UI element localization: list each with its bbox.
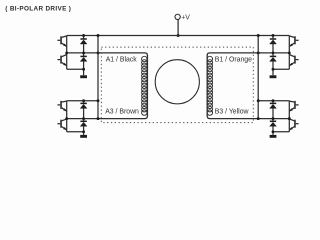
node B3 junction dots bbox=[257, 117, 291, 120]
transistor Q8 bbox=[289, 119, 298, 130]
ground G3 bbox=[270, 69, 277, 78]
wire +V to rail bbox=[177, 20, 179, 36]
stepper motor dashed outline bbox=[101, 47, 253, 123]
+V supply terminal bbox=[175, 14, 190, 21]
diode D1 bbox=[80, 36, 87, 53]
wire coil B spine bbox=[206, 55, 208, 116]
transistor Q5 bbox=[289, 36, 298, 47]
coil B (right winding) bbox=[207, 56, 212, 115]
wire Q3-Q4 vertical bbox=[66, 101, 68, 132]
svg-text:( BI-POLAR DRIVE ): ( BI-POLAR DRIVE ) bbox=[5, 5, 71, 12]
node A1 junction dots bbox=[65, 51, 99, 54]
wire lower-right +V line bbox=[258, 100, 289, 102]
diode D8 bbox=[270, 119, 277, 132]
wire lower-left ground line bbox=[67, 131, 85, 133]
wire B3 coil to node bbox=[207, 116, 289, 119]
wire Q7-Q8 vertical bbox=[288, 101, 290, 132]
wire left +V drop bbox=[97, 36, 99, 119]
wire coil A spine bbox=[146, 55, 148, 116]
diode D2 bbox=[80, 53, 87, 69]
diode D4 bbox=[80, 119, 87, 132]
wire Q1-Q2 collector-emitter vertical bbox=[66, 36, 68, 70]
node D4 ground junction bbox=[82, 130, 85, 133]
svg-text:+V: +V bbox=[181, 14, 190, 21]
ground G4 bbox=[270, 132, 277, 138]
node D7 top junction bbox=[257, 99, 275, 102]
node right drop rail junction bbox=[257, 34, 260, 37]
node D1 rail junction bbox=[82, 34, 85, 37]
node A3 junction dots bbox=[65, 117, 99, 120]
wire lower-left +V line bbox=[67, 100, 98, 102]
diode D6 bbox=[270, 53, 277, 69]
transistor Q4 bbox=[57, 119, 66, 130]
wire lower-right ground line bbox=[272, 131, 289, 133]
ground G2 bbox=[80, 132, 87, 138]
svg-text:B3 / Yellow: B3 / Yellow bbox=[215, 109, 249, 116]
transistor Q3 bbox=[57, 101, 66, 111]
node D2 ground junction bbox=[82, 68, 85, 71]
node +V rail junction bbox=[177, 34, 180, 37]
diode D5 bbox=[270, 36, 277, 53]
transistor Q6 bbox=[289, 55, 298, 66]
wire upper-left ground line bbox=[67, 68, 85, 70]
transistor Q1 bbox=[57, 36, 66, 47]
svg-text:B1 / Orange: B1 / Orange bbox=[215, 56, 252, 63]
svg-text:A1 / Black: A1 / Black bbox=[106, 56, 138, 63]
wire right +V drop bbox=[257, 36, 259, 119]
node D3 top junction bbox=[82, 99, 99, 102]
node D6 ground junction bbox=[272, 68, 275, 71]
node left drop rail junction bbox=[97, 34, 100, 37]
wire Q5-Q6 vertical bbox=[288, 36, 290, 70]
diode D3 bbox=[80, 101, 87, 119]
transistor Q7 bbox=[289, 101, 298, 111]
diode D7 bbox=[270, 101, 277, 119]
wire A3 node to coil A bbox=[67, 116, 148, 119]
wire +V rail bbox=[67, 35, 290, 37]
wire B1 coil to node bbox=[207, 53, 289, 56]
node B1 junction dots bbox=[257, 51, 291, 54]
ground G1 bbox=[80, 69, 87, 78]
node D8 ground junction bbox=[272, 130, 275, 133]
motor rotor circle bbox=[155, 60, 199, 104]
coil A (left winding) bbox=[142, 56, 147, 115]
wire upper-right ground line bbox=[272, 68, 289, 70]
transistor Q2 bbox=[57, 55, 66, 66]
svg-text:A3 / Brown: A3 / Brown bbox=[105, 109, 139, 116]
node D5 rail junction bbox=[272, 34, 275, 37]
wire A1 node to coil A bbox=[67, 53, 148, 56]
